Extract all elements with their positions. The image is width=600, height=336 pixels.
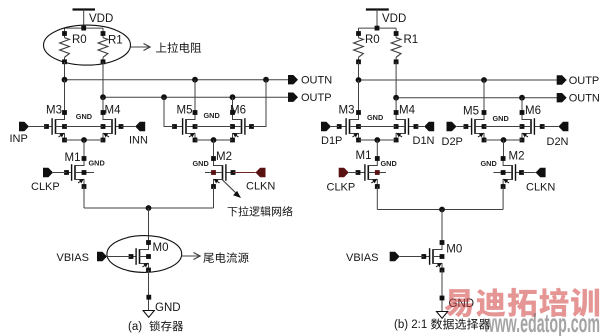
node ground wire (b) [440, 296, 445, 301]
wire M1 source down (b) [376, 187, 378, 210]
transistor M5 (a) [172, 110, 197, 142]
wire M6 drain to OUTP rail (a) [232, 97, 234, 112]
transistor M3 (a) [44, 110, 67, 142]
transistor M0 (b) [421, 240, 444, 272]
wire M2 gate to CLKN (a) [233, 172, 256, 174]
resistor R1 (b) [391, 28, 401, 64]
svg-text:GND: GND [367, 113, 383, 122]
port OUTP pad (b) [557, 75, 567, 84]
wire M3-M4 source link (b) [359, 139, 397, 141]
svg-text:R1: R1 [108, 35, 123, 47]
svg-text:R0: R0 [365, 34, 380, 46]
ground symbol (b) [437, 312, 448, 319]
node M3/M4 tail (b) [374, 137, 380, 143]
svg-text:(b) 2:1: (b) 2:1 [394, 319, 427, 331]
svg-text:R0: R0 [72, 34, 87, 46]
node M6 drain on OUTP rail (a) [230, 94, 236, 100]
svg-text:M6: M6 [230, 105, 246, 117]
ellipse around pull-up resistors (a) [44, 25, 131, 65]
wire M0 source to ground (a) [148, 270, 150, 311]
watermark 易迪拓培训 [444, 288, 599, 317]
transistor M0 (a) [129, 240, 151, 272]
transistor M3 (b) [337, 110, 361, 142]
wire bottom tail rail (b) [377, 209, 503, 211]
port OUTN pad (b) [557, 93, 567, 102]
annotation arrow pull-up resistors (a) [131, 44, 151, 51]
node M3/M4 tail (a) [81, 137, 87, 143]
wire OUTN rail (a) [65, 79, 290, 81]
port OUTP pad (a) [288, 93, 298, 102]
wire M4 gate to INN (a) [121, 126, 135, 128]
transistor M4 (a) [101, 110, 124, 142]
wire R1 to OUTP rail (a) [102, 62, 104, 97]
wire CLKP to M1 gate (a) [53, 172, 67, 174]
port INP pad (a) [19, 122, 29, 131]
wire M0 source to ground (b) [441, 270, 443, 312]
wire M5-M6 source link (a) [195, 139, 233, 141]
transistor M6 (a) [230, 110, 254, 142]
svg-text:M6: M6 [525, 105, 541, 117]
port D1N pad (b) [424, 122, 434, 131]
wire tail rail to M0 drain (a) [148, 208, 150, 243]
port CLKN pad (a) [256, 168, 266, 177]
svg-text:VDD: VDD [382, 13, 406, 25]
svg-text:M4: M4 [399, 105, 416, 117]
resistor R0 (a) [60, 28, 70, 64]
svg-text:OUTN: OUTN [569, 93, 600, 105]
svg-text:VBIAS: VBIAS [57, 252, 89, 264]
port VBIAS pad (a) [97, 252, 107, 261]
port CLKP pad (a) [43, 168, 53, 177]
annotation arrow pull-down network (a) [222, 179, 242, 198]
node M6 gate link on OUTN rail (a) [263, 77, 269, 83]
svg-text:INN: INN [129, 135, 148, 147]
wire R0 to OUTP rail (b) [358, 62, 360, 80]
svg-text:M4: M4 [105, 105, 122, 117]
node M5 drain on OUTN rail (a) [192, 77, 198, 83]
wire M6 gate cross-link to OUTN (a) [252, 80, 267, 127]
wire M4 drain to OUTN rail (b) [395, 98, 397, 113]
svg-text:OUTP: OUTP [301, 92, 332, 104]
wire M3-M4 bulk GND link (a) [65, 126, 104, 128]
wire tail to M1 drain (a) [83, 140, 85, 159]
svg-text:M2: M2 [509, 151, 525, 163]
wire M5 gate cross-link to OUTP (a) [164, 97, 175, 126]
resistor R0 (b) [354, 28, 364, 64]
node ground wire (a) [146, 295, 151, 300]
label 上拉电阻 (a) [156, 43, 166, 53]
wire OUTP rail (b) [359, 79, 558, 81]
port CLKP pad (b) [339, 168, 349, 177]
wire M5 drain to OUTP rail (b) [483, 80, 485, 113]
transistor M1 (a) [64, 156, 94, 189]
node R1/M4 drain on OUTP rail (a) [100, 94, 106, 100]
wire tail to M2 drain (a) [213, 140, 215, 159]
svg-text:D1P: D1P [321, 135, 342, 147]
transistor M4 (b) [394, 110, 419, 142]
node tail rail center (b) [439, 207, 445, 213]
node tail rail center (a) [146, 205, 152, 211]
svg-text:CLKP: CLKP [31, 181, 60, 193]
svg-text:GND: GND [204, 111, 220, 120]
wire M5-M6 bulk GND link (a) [195, 126, 233, 128]
ellipse around tail current source (a) [107, 236, 182, 273]
ground symbol (a) [143, 311, 154, 318]
wire R1 to OUTN rail (b) [395, 62, 397, 98]
svg-text:M3: M3 [339, 105, 355, 117]
wire tail to M2 drain (b) [503, 140, 505, 159]
wire tail rail to M0 drain (b) [441, 210, 443, 243]
svg-text:M5: M5 [463, 106, 479, 118]
wire M2 gate to CLKN (b) [522, 172, 536, 174]
resistor R1 (a) [98, 28, 108, 64]
wire M3 drain to OUTN rail (a) [64, 80, 66, 113]
wire tail to M1 drain (b) [376, 140, 378, 159]
annotation arrow tail current source (a) [182, 253, 200, 260]
svg-text:OUTN: OUTN [301, 75, 332, 87]
svg-text:INP: INP [10, 133, 28, 145]
wire VDD to resistor tops (a) [64, 27, 103, 29]
svg-text:M0: M0 [446, 244, 462, 256]
wire M3 drain to OUTP rail (b) [358, 80, 360, 113]
wire M6 drain to OUTN rail (b) [521, 98, 523, 113]
node VDD junction (b) [375, 26, 380, 31]
wire M3-M4 source link (a) [65, 139, 104, 141]
power VDD symbol (a) [73, 10, 96, 29]
svg-text:OUTP: OUTP [569, 75, 600, 87]
wire R0 to OUTN rail (a) [64, 62, 66, 80]
port OUTN pad (a) [288, 75, 298, 84]
wire CLKP to M1 gate (b) [349, 172, 358, 174]
wire M4 drain to OUTP rail (a) [102, 97, 104, 112]
node M5/M6 tail (b) [501, 137, 507, 143]
port INN pad (a) [135, 122, 145, 131]
node M6 drain on OUTN rail (b) [519, 95, 525, 101]
svg-text:D1N: D1N [413, 135, 435, 147]
wire OUTP rail (a) [103, 96, 290, 98]
wire M5-M6 source link (b) [484, 139, 522, 141]
svg-text:D2P: D2P [442, 136, 463, 148]
wire M2 source down (b) [502, 187, 504, 210]
svg-text:GND: GND [193, 159, 209, 168]
port VBIAS pad (b) [390, 252, 400, 261]
wire M3-M4 bulk GND link (b) [359, 126, 397, 128]
wire bottom tail rail (a) [84, 207, 214, 209]
wire VDD to resistor tops (b) [359, 27, 397, 29]
transistor M2 (a) [205, 156, 235, 189]
svg-text:GND: GND [155, 302, 181, 314]
node R0/M3 drain on OUTP rail (b) [356, 77, 362, 83]
node M5 gate link on OUTP rail (a) [161, 94, 167, 100]
wire M2 source down (a) [213, 187, 215, 209]
port D2N pad (b) [558, 122, 568, 131]
svg-text:CLKN: CLKN [526, 182, 555, 194]
svg-text:M3: M3 [46, 105, 62, 117]
svg-text:VDD: VDD [89, 13, 113, 25]
label 下拉逻辑网络 (a) [228, 207, 238, 216]
svg-text:M2: M2 [216, 151, 232, 163]
svg-text:M1: M1 [65, 152, 81, 164]
wire VBIAS to M0 gate (b) [400, 256, 424, 258]
svg-text:GND: GND [493, 114, 509, 123]
svg-text:M1: M1 [356, 150, 372, 162]
svg-text:M0: M0 [153, 242, 169, 254]
wire OUTN rail (b) [396, 97, 557, 99]
transistor M1 (b) [356, 156, 386, 189]
svg-text:CLKN: CLKN [246, 181, 275, 193]
power VDD symbol (b) [366, 10, 389, 29]
node M5/M6 tail (a) [211, 137, 217, 143]
transistor M6 (b) [520, 110, 545, 142]
svg-text:GND: GND [89, 159, 105, 168]
node R0/M3 drain on OUTN rail (a) [62, 77, 68, 83]
svg-text:VBIAS: VBIAS [346, 252, 378, 264]
svg-text:GND: GND [381, 159, 397, 168]
wire M5-M6 bulk GND link (b) [484, 126, 522, 128]
port CLKN pad (b) [536, 168, 546, 177]
svg-text:M5: M5 [177, 105, 193, 117]
svg-text:www.edatop.com: www.edatop.com [483, 308, 600, 336]
transistor M5 (b) [464, 110, 487, 142]
svg-text:GND: GND [76, 112, 92, 121]
wire M5 drain to OUTN rail (a) [194, 80, 196, 113]
wire INP to M3 gate (a) [29, 126, 47, 128]
label 尾电流源 (a) [203, 253, 214, 263]
transistor M2 (b) [493, 156, 523, 189]
wire D1P to M3 gate (b) [331, 126, 339, 128]
svg-text:GND: GND [481, 159, 497, 168]
node VDD junction (a) [81, 26, 86, 31]
svg-text:CLKP: CLKP [327, 182, 356, 194]
wire M4 gate to D1N (b) [416, 126, 424, 128]
node R1/M4 drain on OUTN rail (b) [393, 95, 399, 101]
svg-text:R1: R1 [404, 34, 419, 46]
port D2P pad (b) [447, 122, 457, 131]
svg-text:D2N: D2N [547, 136, 569, 148]
wire M6 gate to D2N (b) [542, 126, 558, 128]
wire M1 source down (a) [83, 187, 85, 209]
port D1P pad (b) [321, 122, 331, 131]
wire D2P to M5 gate (b) [457, 126, 466, 128]
node M5 drain on OUTP rail (b) [481, 77, 487, 83]
svg-text:(a): (a) [128, 321, 142, 333]
wire VBIAS to M0 gate (a) [107, 256, 131, 258]
